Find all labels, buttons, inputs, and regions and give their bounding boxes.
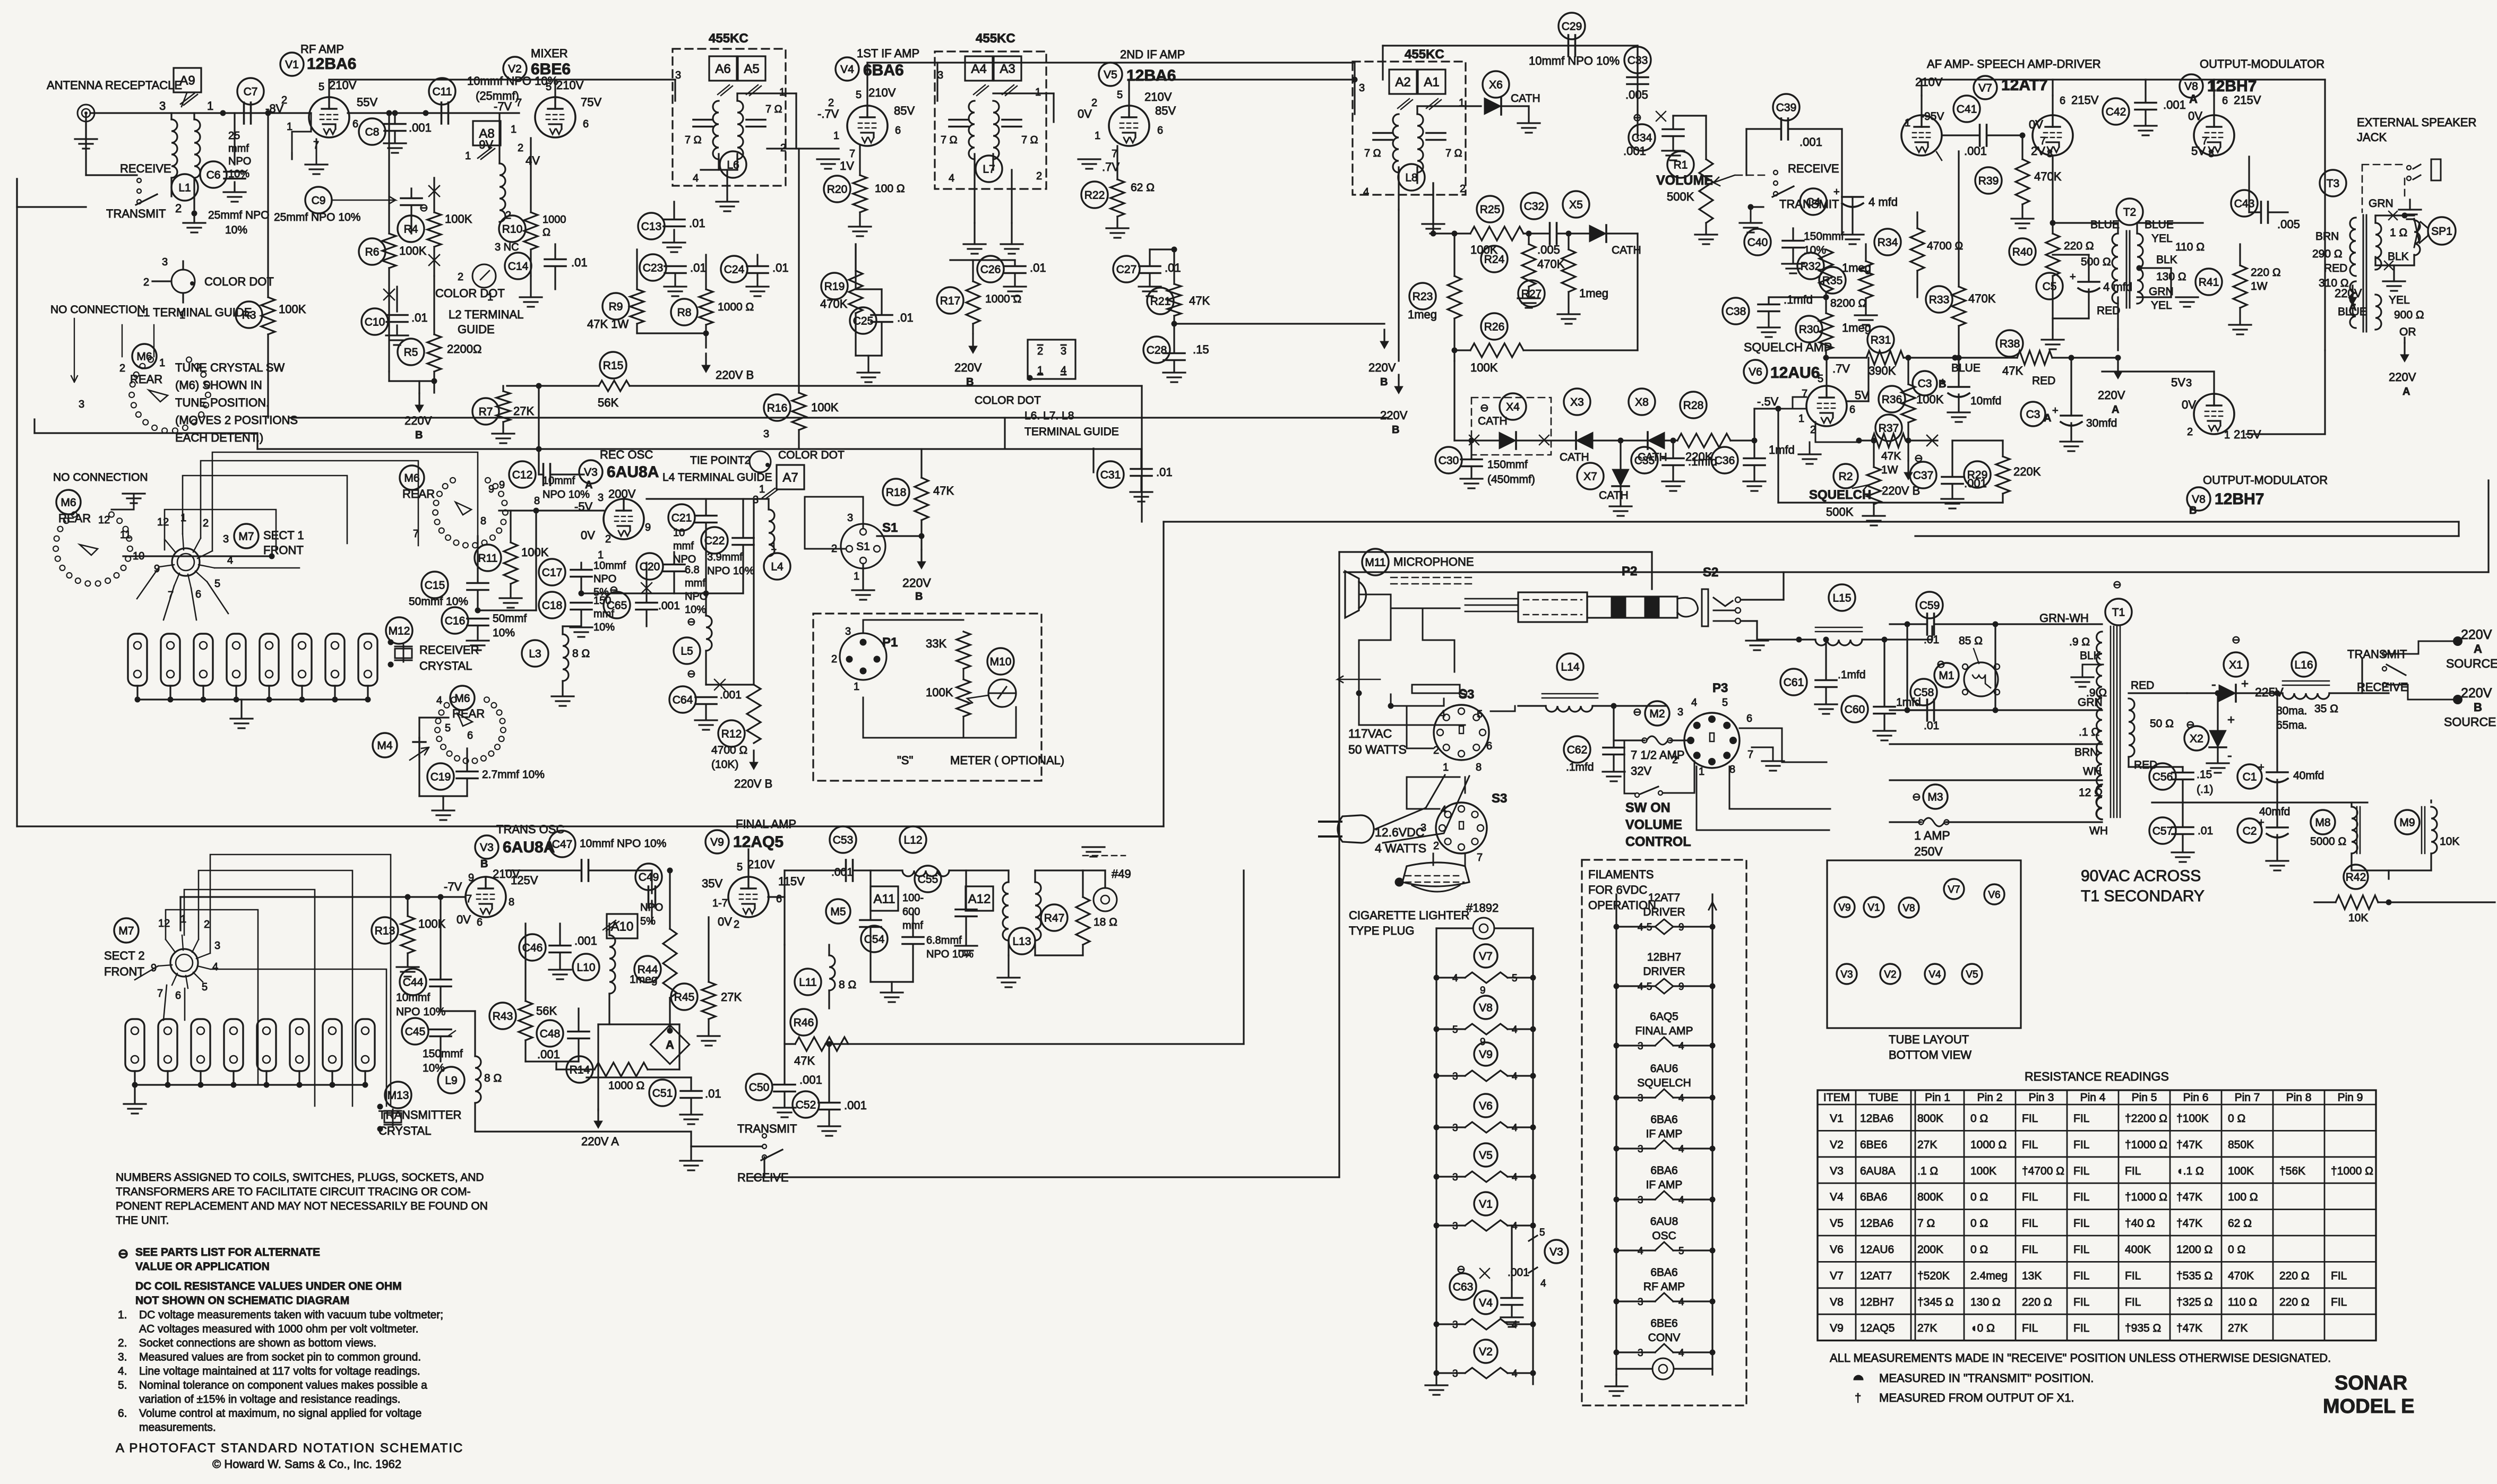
capacitor C39: [1781, 118, 1788, 140]
potentiometer R1 ref: [1667, 151, 1694, 178]
svg-text:C58: C58: [1914, 687, 1934, 699]
wire R13 bottom: [407, 953, 408, 966]
wire S1 loop: [805, 497, 863, 549]
wire C10 top: [396, 287, 398, 312]
wire T2 pri top: [2117, 223, 2119, 234]
M9 core: [2422, 807, 2425, 853]
svg-text:4V: 4V: [526, 154, 540, 167]
note tune crystal switch: [175, 361, 298, 444]
wire long receive bus y983: [1164, 521, 2459, 522]
resistor R25 100K: [1470, 227, 1523, 240]
svg-text:32V: 32V: [1631, 764, 1651, 778]
svg-text:A3: A3: [1000, 62, 1015, 76]
tube layout V7: [1944, 879, 1964, 899]
wire C57 bottom: [2182, 834, 2183, 851]
svg-text:8: 8: [480, 515, 486, 527]
tube layout V3: [1837, 964, 1857, 984]
ground C4: [1841, 235, 1864, 244]
variable mark C34: [1656, 111, 1666, 121]
wire C25 bottom: [881, 322, 882, 356]
svg-text:C22: C22: [704, 535, 725, 547]
svg-text:2200Ω: 2200Ω: [447, 342, 481, 356]
svg-text:NUMBERS ASSIGNED TO COILS, SWI: NUMBERS ASSIGNED TO COILS, SWITCHES, PLU…: [116, 1171, 484, 1184]
svg-text:L16: L16: [2294, 659, 2313, 671]
svg-text:6BA6: 6BA6: [1650, 1164, 1677, 1177]
svg-text:.1mfd: .1mfd: [1566, 761, 1594, 773]
resistor R14 ref: [566, 1056, 593, 1083]
crystal cartridge 2: [161, 634, 180, 686]
svg-text:EXTERNAL SPEAKER: EXTERNAL SPEAKER: [2357, 116, 2476, 129]
svg-text:YEL: YEL: [2151, 299, 2172, 312]
resistor R36 100K: [1901, 384, 1915, 422]
ground R39: [2011, 219, 2034, 228]
wire osc top rail: [647, 498, 769, 499]
svg-text:V6: V6: [1830, 1244, 1844, 1256]
svg-text:+: +: [1940, 376, 1946, 388]
svg-text:100K: 100K: [521, 546, 549, 559]
antenna receptacle J1: [78, 105, 94, 122]
svg-text:90VAC ACROSS: 90VAC ACROSS: [2081, 867, 2201, 885]
svg-text:600: 600: [902, 906, 920, 918]
wire L10 to 220VA: [598, 1023, 679, 1025]
wire C16 bottom: [477, 626, 478, 640]
wire C46 top: [559, 924, 561, 945]
svg-text:R40: R40: [2012, 246, 2033, 258]
wire L8 pri bottom: [1398, 167, 1399, 210]
crystal cartridge 5: [260, 634, 279, 686]
resistor R3 100K: [261, 297, 275, 334]
wire C17 bottom: [580, 577, 582, 593]
wire R22 top: [1116, 146, 1118, 179]
svg-text:12BH7: 12BH7: [2215, 490, 2264, 508]
tube ref V6: [1744, 360, 1767, 383]
switch ref M6 right: [400, 465, 424, 490]
wire t bus gnd: [134, 1085, 135, 1103]
svg-text:mmf: mmf: [685, 577, 705, 589]
svg-text:3: 3: [1420, 822, 1426, 834]
wire L13 down: [1008, 955, 1009, 977]
rotary M7B hub: [170, 949, 198, 977]
wire C56 bottom: [2182, 780, 2183, 803]
dashed filament 6vdc box: [1582, 860, 1746, 1405]
svg-text:C27: C27: [1116, 264, 1137, 276]
svg-text:47K: 47K: [794, 1054, 815, 1067]
wire X7 top: [1620, 441, 1621, 469]
svg-text:GRN-WH: GRN-WH: [2039, 611, 2089, 625]
wire T2 pri bottom: [2117, 297, 2119, 329]
ground X2: [2207, 763, 2229, 773]
wire C49 bottom: [651, 901, 652, 924]
svg-text:IF AMP: IF AMP: [1646, 1128, 1683, 1140]
tube ref V1: [280, 53, 304, 76]
table vline 2: [1910, 1090, 1912, 1341]
svg-text:B: B: [480, 858, 488, 870]
svg-text:12AQ5: 12AQ5: [1860, 1322, 1895, 1334]
filament label 6BA6 IF AMP: [1646, 1164, 1683, 1191]
svg-text:FRONT: FRONT: [104, 965, 144, 978]
svg-text:6: 6: [895, 125, 901, 136]
svg-text:B: B: [2189, 505, 2197, 516]
choke M8: [2352, 807, 2357, 853]
wire C43 out: [2268, 211, 2288, 213]
wire P3 out3: [1697, 766, 1829, 830]
wire lamp out: [1494, 927, 1533, 929]
resistor R8 ref: [671, 299, 698, 325]
ground P3: [1762, 761, 1784, 771]
svg-text:R35: R35: [1822, 275, 1843, 287]
svg-text:COLOR DOT: COLOR DOT: [975, 394, 1041, 407]
svg-text:C18: C18: [542, 600, 563, 612]
svg-text:© Howard W. Sams & Co., Inc. 1: © Howard W. Sams & Co., Inc. 1962: [212, 1457, 401, 1471]
capacitor C36 ref: [1711, 447, 1738, 473]
capacitor C56 ref: [2149, 763, 2176, 790]
svg-text:2: 2: [2187, 426, 2193, 438]
svg-text:Pin 1: Pin 1: [1925, 1092, 1950, 1104]
svg-text:62 Ω: 62 Ω: [2228, 1218, 2252, 1230]
svg-text:8: 8: [2208, 148, 2214, 160]
jack S2 symbol: [1702, 589, 1741, 626]
svg-text:2: 2: [119, 363, 125, 374]
svg-text:mmf: mmf: [228, 143, 249, 154]
wire C13 bottom: [673, 230, 675, 241]
capacitor C25: [871, 315, 892, 322]
svg-text:1000 Ω: 1000 Ω: [1970, 1138, 2007, 1151]
svg-text:110 Ω: 110 Ω: [2228, 1296, 2257, 1308]
svg-text:220V: 220V: [902, 576, 931, 590]
svg-text:FIL: FIL: [2022, 1244, 2038, 1256]
wire crystal drop: [235, 686, 237, 700]
svg-text:.001: .001: [831, 866, 853, 878]
wire R35 bottom: [1865, 298, 1866, 314]
wire corner x4632: [2458, 522, 2459, 536]
svg-text:COLOR DOT: COLOR DOT: [435, 287, 505, 300]
resistor R10 1000: [524, 212, 538, 249]
svg-text:V4: V4: [1928, 969, 1941, 980]
ground C8: [384, 143, 406, 153]
wire crystal drop: [169, 686, 171, 700]
svg-text:6BE6: 6BE6: [1860, 1138, 1887, 1151]
trimmer A5 symbol: [746, 85, 761, 96]
svg-text:130 Ω: 130 Ω: [1970, 1296, 2001, 1308]
diode X6: [1484, 98, 1501, 115]
wire V7A plate: [1921, 96, 1922, 115]
svg-text:215V: 215V: [2071, 93, 2099, 107]
filament V5: [1465, 1171, 1508, 1182]
svg-text:6BA6: 6BA6: [1650, 1114, 1677, 1126]
svg-text:MEASURED IN "TRANSMIT" POSITIO: MEASURED IN "TRANSMIT" POSITION.: [1879, 1371, 2094, 1385]
wire C55 top: [965, 870, 967, 909]
capacitor C3A ref: [2021, 402, 2045, 426]
svg-text:10%: 10%: [685, 604, 706, 616]
wire C62 bottom: [1613, 755, 1614, 771]
svg-text:6BA6: 6BA6: [863, 62, 904, 79]
capacitor C19: [457, 772, 478, 779]
svg-text:12AU6: 12AU6: [1860, 1244, 1894, 1256]
wire V4 plate: [866, 63, 868, 106]
wire R39 bottom: [2021, 204, 2023, 218]
diode X7 ref: [1577, 463, 1604, 489]
svg-text:50 WATTS: 50 WATTS: [1348, 743, 1407, 756]
transformer T1 12V winding: [2096, 784, 2102, 819]
svg-text:FIL: FIL: [2022, 1138, 2038, 1151]
svg-text:5: 5: [445, 722, 451, 734]
svg-text:47K: 47K: [2002, 364, 2023, 377]
diode X4 ref: [1500, 393, 1526, 420]
capacitor C16 ref: [442, 607, 468, 634]
svg-text:.001: .001: [1508, 1266, 1529, 1279]
svg-text:220V A: 220V A: [581, 1135, 619, 1148]
ground R1: [1695, 235, 1717, 244]
wire C59 out: [1934, 623, 2102, 625]
capacitor C2 ref: [2237, 818, 2262, 843]
svg-text:C42: C42: [2106, 106, 2126, 118]
wire to arrow: [418, 381, 420, 393]
wire C18 bottom: [580, 610, 582, 626]
wire X2 bottom: [2217, 747, 2218, 762]
wire C1 top: [2276, 693, 2278, 772]
svg-text:9: 9: [499, 479, 505, 491]
value fuse M3: [1914, 829, 1950, 858]
socket P1 symbol: [840, 633, 886, 680]
wire join R5R6: [389, 380, 434, 382]
svg-text:-: -: [2211, 676, 2216, 692]
svg-text:GRN: GRN: [2369, 197, 2393, 210]
lamp M1 ref: [1934, 663, 1959, 687]
coil L11: [829, 955, 835, 990]
svg-text:METER ( OPTIONAL): METER ( OPTIONAL): [950, 754, 1064, 767]
tube V3A pentode: [604, 499, 644, 539]
wire X2 top: [2217, 693, 2218, 730]
svg-text:⊖: ⊖: [687, 616, 696, 628]
tube layout V4: [1925, 964, 1945, 984]
wire L16 out: [2329, 692, 2389, 694]
svg-text:220V: 220V: [2461, 686, 2492, 701]
svg-text:†47K: †47K: [2176, 1191, 2202, 1203]
wire crystal drop: [301, 686, 303, 700]
wire pin6 up: [1867, 358, 1869, 401]
svg-text:56K: 56K: [536, 1004, 557, 1017]
wire C28 bottom: [1173, 360, 1175, 372]
capacitor L6 secondary tuning: [746, 120, 765, 127]
tube layout V9: [1835, 897, 1855, 917]
wire R1 top: [1705, 116, 1707, 159]
ground V6 cathode: [1798, 454, 1821, 464]
wire C49 top: [651, 870, 652, 893]
svg-text:#49: #49: [1112, 867, 1131, 881]
svg-text:2: 2: [605, 533, 611, 545]
svg-text:†100K: †100K: [2176, 1112, 2209, 1125]
svg-text:C59: C59: [1919, 600, 1940, 612]
svg-text:.01: .01: [772, 261, 789, 274]
wire L10 top: [608, 924, 610, 935]
wire L1 bottom right lead: [193, 178, 195, 210]
svg-text:L1: L1: [178, 182, 191, 194]
wire L11 bottom: [828, 990, 830, 1008]
svg-text:0V: 0V: [2029, 118, 2043, 131]
svg-text:5.: 5.: [118, 1379, 127, 1392]
wire R38 out: [2052, 357, 2118, 358]
resistor R21 ref: [1147, 288, 1174, 314]
wire R42 out: [2378, 901, 2495, 903]
svg-text:V3: V3: [480, 842, 494, 854]
wire R25 in: [1433, 232, 1470, 234]
guide lead top: [182, 261, 184, 270]
ground L1: [183, 223, 205, 232]
wire L7 pin4 down: [974, 175, 975, 223]
svg-text:1: 1: [854, 681, 859, 693]
arrow 220V B L6: [702, 353, 710, 373]
svg-text:TUBE LAYOUT: TUBE LAYOUT: [1889, 1033, 1969, 1046]
wire fil2 r: [1673, 926, 1712, 927]
capacitor C39 ref: [1773, 94, 1799, 120]
resistor R29 220K: [1996, 456, 2010, 494]
coil ref L4: [764, 553, 790, 580]
svg-text:RF AMP: RF AMP: [300, 42, 344, 56]
wire C38 top: [1768, 297, 1769, 304]
resistor R11 ref: [475, 545, 501, 571]
junction 220VA net: [2115, 355, 2121, 361]
wire P3 out1: [1740, 728, 1827, 762]
wire C26 top: [1014, 260, 1015, 266]
svg-text:+: +: [2052, 405, 2059, 417]
wire R6 join: [388, 372, 390, 381]
svg-text:7 Ω: 7 Ω: [685, 134, 702, 146]
svg-text:SW ON: SW ON: [1625, 800, 1671, 815]
S meter pot arrow: [967, 695, 988, 703]
svg-text:DC voltage measurements taken: DC voltage measurements taken with vacuu…: [139, 1309, 443, 1321]
wire L13 sec join: [1035, 954, 1083, 956]
svg-text:⊖: ⊖: [1633, 706, 1642, 718]
diode X1: [2219, 685, 2236, 702]
tube ref V5: [1099, 63, 1122, 86]
svg-text:220 Ω: 220 Ω: [2251, 266, 2281, 279]
capacitor C60: [1874, 707, 1895, 714]
svg-text:6AQ5: 6AQ5: [1650, 1011, 1678, 1023]
wire T1 brn: [1890, 743, 2102, 745]
svg-text:12BH7: 12BH7: [1860, 1296, 1894, 1308]
svg-text:⊖: ⊖: [1912, 791, 1921, 803]
svg-text:.9 Ω: .9 Ω: [2069, 636, 2090, 648]
svg-text:V7: V7: [1948, 884, 1960, 895]
resistor R37 ref: [1875, 415, 1902, 441]
wire C60 bottom: [1883, 714, 1885, 730]
filament label 12AT7 DRIVER: [1643, 892, 1685, 918]
svg-text:C32: C32: [1524, 201, 1545, 213]
svg-text:R18: R18: [886, 487, 907, 499]
wire fil lead r: [1508, 1075, 1533, 1076]
wire V3 grid drop: [535, 511, 537, 610]
wire L5 bottom: [705, 651, 707, 685]
svg-text:.001: .001: [537, 1048, 560, 1061]
terminal 220VA source: [2453, 636, 2462, 646]
svg-text:800K: 800K: [1917, 1191, 1943, 1203]
V7A arrow: [1936, 152, 1942, 160]
coil L8 primary: [1393, 114, 1399, 172]
capacitor C34 ref: [1629, 124, 1655, 151]
svg-text:†935 Ω: †935 Ω: [2125, 1322, 2161, 1334]
diode X2: [2209, 730, 2226, 747]
svg-text:12AQ5: 12AQ5: [733, 833, 783, 851]
capacitor C44: [430, 980, 451, 987]
svg-text:†520K: †520K: [1917, 1270, 1950, 1282]
wire V5 plate: [1128, 80, 1130, 106]
svg-text:C7: C7: [244, 86, 258, 98]
svg-text:27K: 27K: [1917, 1322, 1937, 1334]
wire lamp top: [1083, 869, 1105, 871]
capacitor L8 secondary tuning: [1426, 133, 1445, 140]
svg-text:8: 8: [509, 896, 514, 908]
117 plug wires: [1375, 775, 1469, 843]
wire C26 bottom: [1014, 273, 1015, 286]
svg-text:3.: 3.: [118, 1351, 127, 1364]
wire L13 sec bottom: [1034, 939, 1036, 955]
svg-text:CATH: CATH: [1511, 92, 1540, 105]
wire C54 top: [912, 913, 914, 937]
M7B spokes: [158, 935, 210, 988]
ground T1 blk: [2071, 677, 2094, 687]
capacitor C47 ref: [549, 831, 575, 857]
svg-text:V6: V6: [1749, 366, 1762, 378]
svg-text:C1: C1: [2243, 771, 2257, 783]
wire C42 top: [2145, 80, 2146, 102]
wire L1 top right: [193, 113, 195, 119]
svg-text:FIL: FIL: [2125, 1270, 2141, 1282]
wire crystal t bus: [135, 1084, 365, 1085]
svg-text:C3: C3: [1918, 378, 1932, 390]
svg-text:470K: 470K: [820, 297, 848, 310]
fuse M3: [1919, 818, 1949, 826]
ground C31: [1130, 492, 1152, 502]
filament tube ref V2: [1474, 1340, 1497, 1363]
wire R34 bottom: [1916, 271, 1918, 297]
capacitor C62: [1603, 748, 1624, 755]
wire C48 bottom: [578, 1039, 579, 1062]
svg-text:FILAMENTS: FILAMENTS: [1588, 868, 1654, 881]
wire 220VA drop: [597, 1024, 599, 1110]
choke M9: [2431, 807, 2437, 853]
wire M8 bottom: [2350, 853, 2352, 870]
svg-text:100-: 100-: [902, 892, 924, 904]
wire X6 out: [1501, 105, 1529, 107]
wire M6 to M7: [123, 555, 272, 557]
trimmer box A9: [174, 68, 201, 92]
svg-text:BLK: BLK: [2388, 251, 2409, 263]
capacitor C45: [430, 1030, 451, 1037]
tube ref V3A: [579, 460, 602, 484]
resistor R45 ref: [671, 983, 698, 1010]
wire V1 grid: [309, 112, 311, 114]
svg-text:RED: RED: [2032, 375, 2055, 387]
svg-text:R30: R30: [1799, 324, 1820, 336]
svg-text:3: 3: [1677, 706, 1683, 718]
wire C63 bottom: [1511, 1305, 1512, 1316]
wire C39 right drop: [1841, 129, 1842, 234]
svg-text:C64: C64: [673, 694, 693, 706]
T3 core line2: [2366, 215, 2367, 332]
L16 core: [2283, 681, 2329, 685]
wire filament left rail: [1435, 928, 1437, 1384]
capacitor C51: [681, 1091, 702, 1098]
note numbers list: [118, 1309, 127, 1420]
svg-text:Nominal tolerance on component: Nominal tolerance on component values ma…: [139, 1379, 427, 1392]
svg-text:0V: 0V: [2182, 398, 2196, 411]
wire R36 bottom: [1907, 422, 1909, 441]
svg-text:CATH: CATH: [1599, 489, 1629, 502]
svg-text:R8: R8: [677, 307, 692, 319]
capacitor C41: [1980, 125, 1987, 146]
guide lead bottom: [182, 293, 184, 303]
guide lead left: [152, 280, 171, 282]
